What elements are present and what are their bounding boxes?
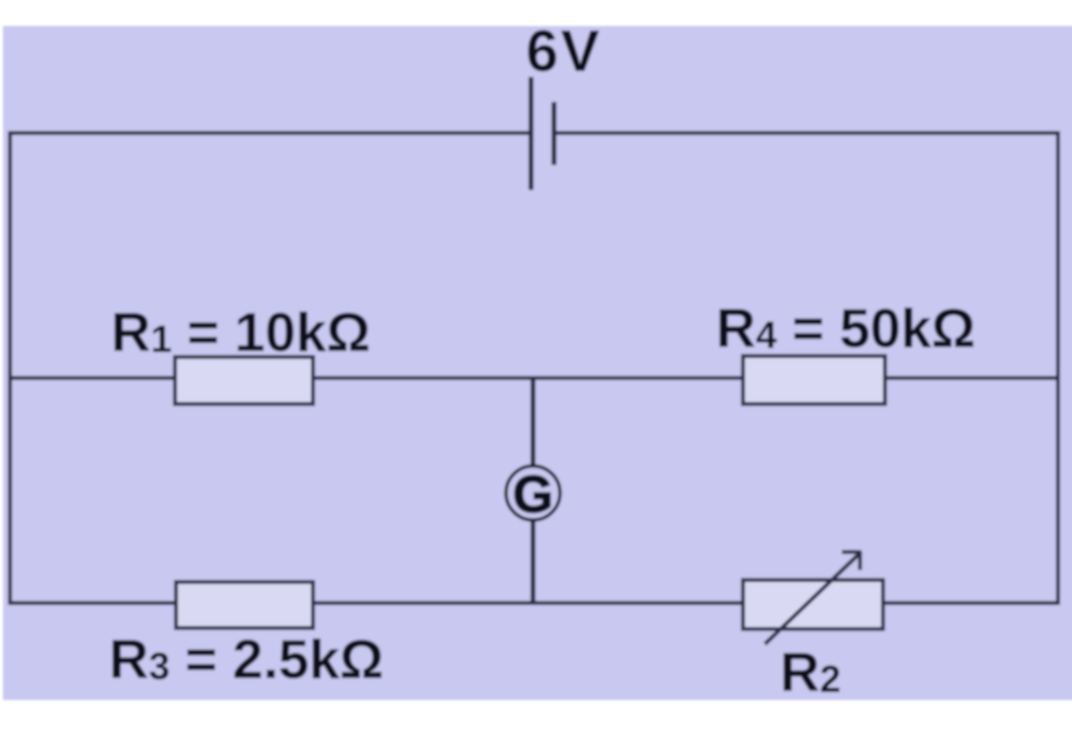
wire right rail [1056, 131, 1060, 605]
svg-text:G: G [513, 466, 553, 524]
arrow of variable resistor R2 [765, 553, 860, 644]
resistor R1 [175, 357, 313, 404]
svg-text:6V: 6V [526, 19, 602, 84]
svg-text:R1 = 10kΩ: R1 = 10kΩ [111, 301, 370, 363]
wire top rail left of battery [10, 131, 531, 135]
wire middle rail [10, 376, 1058, 380]
wire left rail [8, 131, 12, 605]
resistor R2 (variable) [743, 580, 883, 629]
galvanometer G circle [506, 466, 560, 520]
wire bottom rail [10, 601, 1058, 605]
resistor R3 [176, 582, 313, 628]
battery B1 long plate [529, 77, 534, 190]
battery B1 short plate [552, 102, 557, 165]
resistor R4 [743, 356, 885, 404]
wire top rail right of battery [554, 131, 1058, 135]
svg-text:R4 = 50kΩ: R4 = 50kΩ [716, 297, 975, 359]
wire galvanometer branch [531, 378, 536, 603]
